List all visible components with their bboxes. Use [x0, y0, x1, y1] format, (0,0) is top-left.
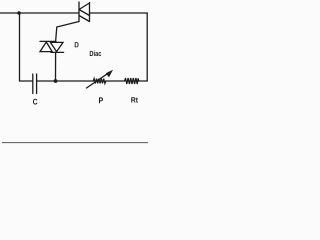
potentiometer P arrow shaft	[87, 72, 110, 88]
potentiometer P zigzag	[93, 79, 106, 84]
capacitor C right plate	[36, 74, 38, 94]
diac D left triangle	[40, 42, 52, 52]
diac D right triangle	[50, 42, 63, 51]
triac triangle edge middle	[79, 10, 90, 16]
label D	[75, 42, 79, 47]
resistor Rt zigzag	[125, 78, 139, 84]
wire right vertical	[146, 13, 148, 81]
triac triangle edge upper	[79, 3, 90, 10]
wire top-left horizontal	[0, 12, 79, 14]
wire resistor to right corner	[139, 80, 147, 82]
triac triangle edge lower	[79, 16, 90, 22]
wire potentiometer to resistor	[106, 80, 125, 82]
diac D top bar	[40, 40, 56, 42]
label C	[33, 99, 37, 105]
triac right bar	[89, 3, 91, 22]
wire capacitor to node	[37, 80, 56, 82]
label Diac	[90, 51, 101, 57]
wire top-right horizontal	[90, 12, 148, 14]
node junction dot middle	[54, 79, 58, 83]
triac left bar	[78, 2, 80, 22]
wire bottom horizontal (second conductor)	[2, 142, 148, 144]
wire left vertical	[19, 13, 21, 81]
wire to capacitor	[20, 80, 33, 82]
diac D bottom bar	[51, 51, 64, 53]
triac gate wire	[56, 22, 79, 42]
potentiometer P arrow head	[106, 70, 113, 78]
label P	[99, 97, 103, 103]
label Rt	[131, 97, 138, 102]
wire diac to node	[55, 52, 57, 81]
node junction dot top	[17, 11, 21, 15]
wire node to potentiometer	[56, 80, 94, 82]
capacitor C left plate	[32, 74, 34, 94]
